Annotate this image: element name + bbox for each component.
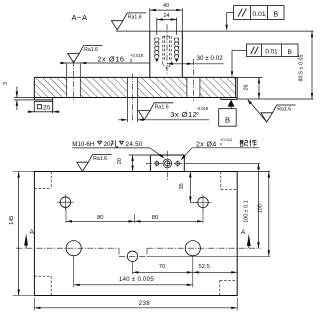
svg-text:Ra1.6: Ra1.6: [128, 15, 142, 21]
right step bottom extension line: [237, 98, 313, 100]
pin hole Ø4 right hidden coil: [175, 38, 179, 42]
svg-text:26: 26: [243, 84, 249, 90]
svg-text:3x Ø12: 3x Ø12: [170, 110, 197, 119]
svg-text:20: 20: [104, 141, 111, 148]
boss tower right edge: [181, 31, 183, 77]
left step extension lines for 3 dim: [14, 97, 34, 99]
svg-text:B: B: [225, 115, 230, 124]
plan boss tab outline: [149, 155, 151, 172]
dimension 100 ± 0.1: [258, 163, 260, 248]
dimension 238: [33, 298, 35, 311]
svg-text:24.50: 24.50: [126, 141, 143, 148]
hole Ø16 right plan: [185, 241, 200, 256]
section bar right edge: [236, 77, 238, 99]
notch top-left hidden: [50, 172, 52, 189]
section arrow A left: [24, 234, 28, 246]
leader of upper frame: [227, 11, 234, 13]
dimension 20 (tab): [132, 155, 134, 172]
tab top extension for 20 dim: [129, 154, 151, 156]
svg-text:20: 20: [43, 104, 51, 111]
leader of lower frame: [232, 49, 247, 51]
boss tower left edge: [149, 31, 151, 77]
plan view plate outline: [34, 172, 237, 296]
surface finish Ra1.6 on Ø16 bore: [68, 46, 103, 63]
dimension 80 80 chain: [65, 209, 67, 224]
dimension 2x Ø16 +0.018/0: [66, 64, 68, 77]
svg-text:100 ± 0.1: 100 ± 0.1: [244, 200, 250, 222]
svg-text:Ra1.6: Ra1.6: [277, 107, 291, 113]
surface finish Ra1.6 on boss top: [111, 13, 146, 30]
small hole row extension line: [147, 255, 270, 257]
pin hole Ø4 left plan: [155, 162, 159, 166]
svg-text:Ra1.6: Ra1.6: [84, 47, 98, 53]
hole Ø16 left section edges: [66, 77, 68, 97]
dimension □20 (boxed): [34, 101, 52, 111]
svg-text:3: 3: [3, 82, 9, 85]
dimension 145: [13, 171, 35, 173]
dimension 30 ± 0.02: [167, 63, 224, 65]
hole Ø12 A plan: [60, 197, 71, 208]
leader 2xØ4 label: [182, 148, 192, 159]
svg-text:Ra1.6: Ra1.6: [155, 104, 169, 110]
svg-text:Ra1.6: Ra1.6: [93, 156, 107, 162]
dimension 70 and 52.5: [132, 262, 134, 275]
26 top extension: [237, 76, 262, 78]
section bar top edge: [34, 76, 237, 78]
svg-text:52.5: 52.5: [199, 264, 210, 270]
datum feature B symbol: [228, 100, 235, 107]
notch top-right hidden: [220, 172, 222, 190]
svg-text:24: 24: [163, 13, 169, 19]
section cut centerline: [16, 247, 119, 249]
svg-text:238: 238: [139, 301, 151, 307]
parallelism frame // 0.01 B (upper): [234, 6, 284, 20]
svg-text:M10-6H: M10-6H: [72, 141, 94, 148]
svg-text:70: 70: [159, 264, 165, 270]
svg-text:B: B: [288, 49, 292, 56]
svg-text:30 ± 0.02: 30 ± 0.02: [197, 55, 224, 62]
dimension 140 ± 0.005: [73, 256, 75, 288]
svg-text:80.5 ± 0.05: 80.5 ± 0.05: [299, 55, 305, 82]
section bar bottom edge: [34, 97, 237, 99]
svg-text:A−A: A−A: [71, 13, 87, 22]
M10 tapped hole hidden outline: [162, 36, 164, 64]
svg-text:0.01: 0.01: [252, 11, 265, 18]
svg-text:145: 145: [9, 216, 15, 225]
svg-text:100: 100: [258, 204, 264, 213]
svg-text:A: A: [29, 229, 34, 236]
pin row centerline extension: [184, 162, 259, 164]
surface finish Ra1.6 bottom surface: [248, 99, 252, 104]
M10 hole centerline: [166, 24, 168, 75]
svg-text:20: 20: [117, 158, 123, 164]
pin hole Ø4 left hidden coil: [155, 38, 159, 42]
svg-text:B: B: [273, 11, 278, 18]
hole Ø16 left centerline: [73, 61, 75, 102]
hole Ø16 left plan: [66, 241, 81, 256]
dimension 3x Ø12 0/-0.018: [126, 98, 128, 122]
parallelism frame // 0.01 B (lower): [247, 44, 299, 57]
svg-text:140 ± 0.005: 140 ± 0.005: [119, 277, 154, 283]
hole Ø12 C plan: [127, 251, 138, 262]
svg-text:35: 35: [179, 183, 185, 189]
dimension 40: [149, 8, 151, 30]
hole Ø12 section edges: [126, 77, 128, 97]
dimension 3 (left step): [16, 87, 18, 98]
svg-text:A: A: [241, 229, 246, 236]
hole Ø16 right centerline: [192, 59, 194, 101]
M10 tapped hole plan: [163, 159, 172, 168]
tab centerline: [146, 162, 184, 164]
svg-text:2x Ø16: 2x Ø16: [97, 54, 124, 63]
dimension 24: [156, 18, 158, 35]
leader M10 label: [150, 148, 163, 157]
dimension 100: [268, 172, 270, 257]
dimension 35: [189, 172, 191, 203]
hole Ø12 centerline: [132, 74, 134, 123]
svg-text:40: 40: [163, 3, 169, 9]
surface finish Ra1.6 plan top edge: [77, 154, 112, 171]
section bar left edge: [33, 77, 35, 100]
hole Ø16 right section edges: [186, 77, 188, 97]
dimension 80.5 ± 0.05: [311, 31, 313, 99]
plate top edge extension right: [237, 171, 270, 173]
section right step bottom: [221, 98, 238, 100]
notch bottom-left hidden: [50, 276, 52, 295]
section arrow A right: [247, 234, 251, 246]
svg-text:80: 80: [97, 215, 103, 221]
notch bottom-right hidden: [219, 280, 221, 295]
hole Ø12 B plan: [198, 197, 209, 208]
surface finish Ra1.6 on Ø12 bore: [138, 103, 173, 120]
section left step bottom: [34, 99, 52, 101]
svg-text:0.01: 0.01: [265, 49, 278, 56]
boss top line with extensions: [116, 30, 314, 32]
pin hole Ø4 right plan: [176, 162, 180, 166]
section hatching: [35, 78, 67, 97]
svg-text:80: 80: [152, 215, 158, 221]
dimension 26: [258, 77, 260, 99]
